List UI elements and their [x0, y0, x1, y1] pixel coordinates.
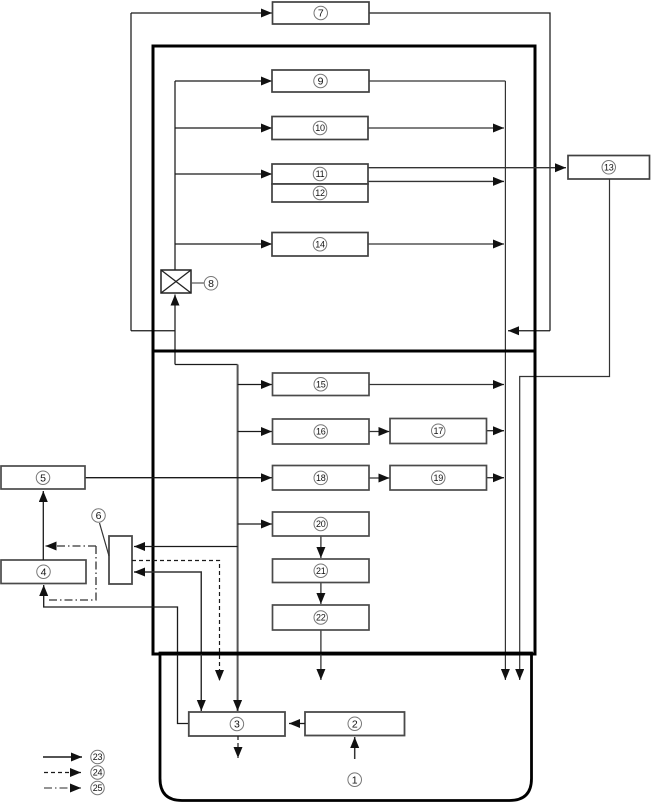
label 25 [91, 781, 105, 795]
block 10 [272, 117, 368, 140]
middle thick box [153, 351, 535, 654]
wire block 15 output to bus [369, 384, 504, 386]
wire block 13 return line [520, 179, 610, 680]
wire block 22 output down [320, 630, 322, 680]
label 8 leader [191, 282, 205, 284]
svg-text:14: 14 [315, 239, 325, 249]
wire into block 6 from below line [134, 572, 201, 711]
label 6 leader [100, 523, 110, 556]
block 11 [272, 164, 368, 184]
machine container [160, 653, 532, 801]
wire horizontal joint to middle bus [175, 364, 238, 366]
svg-text:12: 12 [315, 188, 325, 198]
svg-text:11: 11 [316, 169, 325, 179]
wire block 11 output to block 13 [368, 167, 566, 169]
wire block 2 to block 3 [289, 723, 305, 725]
svg-text:1: 1 [352, 774, 358, 786]
wire into block 8 from below [174, 295, 176, 365]
wire collector bus right vertical [504, 81, 506, 680]
block 12 [272, 184, 368, 202]
block 15 [273, 373, 370, 396]
block 2 [305, 712, 405, 736]
wire block 19 output to bus [487, 477, 505, 479]
svg-text:6: 6 [96, 510, 102, 522]
block 7 [273, 2, 370, 24]
svg-text:4: 4 [41, 566, 47, 578]
wire branch to block 10 [175, 127, 272, 129]
svg-text:7: 7 [318, 8, 324, 20]
label 6 [92, 509, 106, 523]
wire upper bus vertical [174, 81, 176, 270]
block 16 [273, 419, 370, 444]
svg-text:9: 9 [318, 76, 324, 88]
wire branch to block 15 [238, 384, 272, 386]
svg-text:19: 19 [434, 473, 444, 483]
block 5 [1, 466, 85, 489]
wire block 12 output to bus [368, 180, 504, 182]
svg-text:17: 17 [434, 426, 444, 436]
mixer block 8 [161, 270, 191, 293]
wire branch to block 14 [175, 243, 272, 245]
dash-dot wire arrow at 4-5 line [46, 545, 97, 547]
svg-text:24: 24 [93, 768, 103, 778]
wire down into block 3 [200, 572, 202, 711]
wire feedback into bus at y=330 [508, 330, 550, 332]
upper thick box [153, 46, 535, 351]
svg-text:5: 5 [40, 472, 46, 484]
wire block 17 output to bus [487, 430, 505, 432]
label 8 [204, 277, 218, 291]
svg-text:18: 18 [316, 473, 326, 483]
legend dash-dot arrow [44, 787, 81, 789]
wire block 3 to block 4 [44, 585, 189, 724]
wire block 14 output to bus [368, 243, 504, 245]
svg-text:15: 15 [316, 379, 326, 389]
wire block 21 to block 22 [320, 583, 322, 605]
block 6 [109, 536, 132, 584]
block 19 [390, 466, 487, 491]
dashed wire below block 3 [237, 736, 239, 758]
svg-text:10: 10 [315, 123, 325, 133]
block 9 [272, 70, 369, 92]
svg-text:22: 22 [316, 613, 326, 623]
block 13 [568, 156, 650, 180]
dash-dot wire loop [46, 546, 96, 600]
svg-text:23: 23 [93, 752, 103, 762]
label 1 [348, 773, 362, 787]
wire block 4 to block 5 [42, 491, 44, 560]
wire block 16 to block 17 [369, 431, 390, 433]
legend dashed arrow [44, 772, 81, 774]
wire outer-loop bottom joining block 8 line [131, 330, 175, 332]
wire branch to block 6 [134, 546, 238, 548]
wire outer-loop top into block 7 [131, 12, 272, 14]
wire branch to block 20 [238, 523, 272, 525]
block 4 [1, 560, 86, 584]
wire block 7 output right and down [369, 13, 550, 331]
wire outer-loop left vertical [130, 13, 132, 331]
wire middle bus vertical down to block 3 [237, 365, 239, 712]
svg-text:25: 25 [93, 783, 103, 793]
svg-text:2: 2 [352, 718, 358, 730]
wire branch to block 9 [175, 80, 272, 82]
block 21 [273, 559, 370, 583]
wire branch to block 16 [238, 431, 272, 433]
label 24 [91, 766, 105, 780]
svg-text:3: 3 [234, 719, 240, 731]
block 22 [273, 605, 370, 630]
wire block 18 to block 19 [369, 477, 390, 479]
wire label 1 into block 2 [354, 737, 356, 759]
svg-text:20: 20 [316, 519, 326, 529]
svg-text:16: 16 [316, 427, 326, 437]
wire block 9 output to bus [369, 80, 505, 82]
dashed wire block 6 output down [132, 561, 220, 682]
svg-text:13: 13 [604, 163, 614, 173]
block 20 [273, 512, 370, 536]
block 18 [273, 466, 370, 491]
svg-text:21: 21 [316, 566, 326, 576]
block 3 [189, 712, 285, 736]
block 14 [272, 233, 368, 257]
wire branch to block 11 [175, 173, 272, 175]
wire block 20 to block 21 [320, 536, 322, 558]
block 17 [390, 419, 487, 444]
svg-text:8: 8 [208, 278, 214, 290]
label 23 [91, 750, 105, 764]
wire block 10 output to bus [368, 127, 504, 129]
wire block 5 to block 18 [85, 477, 272, 479]
legend solid arrow [43, 756, 82, 758]
